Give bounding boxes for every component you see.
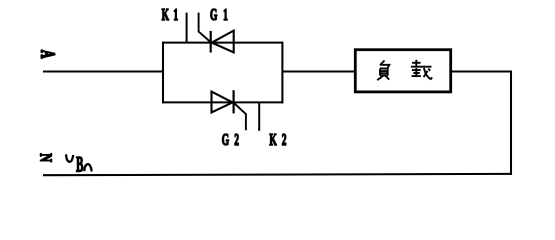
thyristor V1 cathode bar <box>210 31 212 53</box>
svg-text:K: K <box>162 5 170 23</box>
svg-text:N: N <box>36 153 54 162</box>
source wave mark right (hill) <box>84 164 92 171</box>
wire bottom return <box>43 174 512 175</box>
gate lead G2 <box>234 103 246 130</box>
wire loop bottom <box>162 101 283 103</box>
cathode lead K1 <box>186 13 188 44</box>
svg-text:B: B <box>76 151 84 176</box>
label 载 (load char 2) <box>411 60 432 80</box>
svg-text:G: G <box>210 5 218 23</box>
wire input from A <box>43 70 164 72</box>
svg-text:2: 2 <box>234 130 239 148</box>
wire right vertical <box>510 71 512 175</box>
load box <box>355 50 450 92</box>
wire loop to load <box>282 70 355 72</box>
label G1 <box>210 5 228 23</box>
thyristor V2 cathode bar <box>233 90 235 113</box>
svg-text:2: 2 <box>282 130 287 148</box>
label K1 <box>162 5 179 23</box>
svg-text:1: 1 <box>223 5 228 23</box>
wire loop right edge <box>281 42 283 104</box>
wire loop left edge <box>162 42 164 104</box>
wire load to right <box>451 70 513 72</box>
svg-text:G: G <box>222 130 230 148</box>
cathode lead K2 <box>258 103 260 131</box>
svg-text:K: K <box>269 130 277 148</box>
thyristor V2 triangle (pointing right) <box>212 92 233 113</box>
source wave mark left (valley) <box>66 154 73 161</box>
svg-text:A: A <box>37 50 59 59</box>
label 负 (load char 1) <box>377 61 389 81</box>
gate lead G1 <box>199 13 211 42</box>
label G2 <box>222 130 239 148</box>
svg-text:1: 1 <box>173 5 178 23</box>
label K2 <box>269 130 286 148</box>
wire loop top <box>162 42 283 44</box>
thyristor V1 triangle (pointing left) <box>212 31 234 53</box>
